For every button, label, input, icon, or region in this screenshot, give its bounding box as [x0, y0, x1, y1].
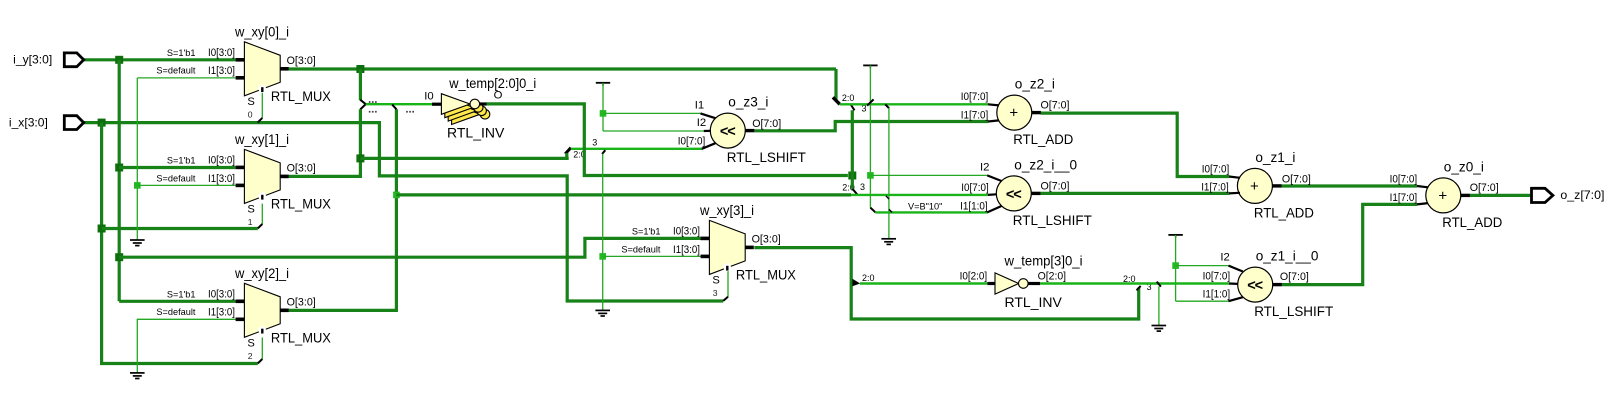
wire net o_z2 from adder output to o_z1_i I0 [1041, 113, 1230, 176]
svg-text:I1[3:0]: I1[3:0] [208, 307, 235, 319]
ripper tick w_xy[2] into inverter concat [392, 105, 396, 110]
junction net w_xy[2] branch to o_z2_i__0 shifter [393, 192, 400, 199]
wire net i_y to mux w_xy[3]_i I0 long segment [119, 238, 701, 257]
o_z2_i pin I1 stub [988, 120, 999, 121]
hop tick at I0 concat crossing [886, 196, 889, 199]
svg-text:S=1'b1: S=1'b1 [167, 156, 196, 166]
o_z1_i__0 pin I0 stub [1229, 282, 1238, 285]
ground symbol constant 0 for mux w_xy[2]_i I1 [130, 373, 145, 379]
w_xy[1]_i input pin I0 stub [236, 166, 245, 170]
wire net mux w_xy[3]_i select bit x[3] [727, 271, 729, 298]
svg-text:RTL_INV: RTL_INV [447, 125, 505, 141]
ground symbol constant 0 for mux I1 net [130, 240, 145, 246]
w_xy[1]_i select pin S stub [261, 195, 263, 200]
o_z2_i__0 pin I1 stub [987, 206, 1001, 212]
mux w_xy[0]_i (RTL_MUX) [244, 42, 280, 96]
svg-text:o_z1_i__0: o_z1_i__0 [1256, 249, 1319, 264]
wire net w_xy[0] right end down to slice [834, 69, 837, 100]
svg-text:I1[7:0]: I1[7:0] [961, 110, 989, 122]
svg-text:I0[7:0]: I0[7:0] [1390, 174, 1418, 186]
svg-text:w_xy[0]_i: w_xy[0]_i [234, 25, 289, 40]
w_xy[2]_i select pin S stub [261, 329, 263, 334]
svg-text:o_z2_i__0: o_z2_i__0 [1014, 157, 1077, 172]
wire net i_y horizontal from port to mux w_xy[0]_i I0 [84, 58, 236, 61]
bit-select tick mux w_xy[0]_i S onto i_x bus [258, 118, 263, 123]
svg-text:V=B"10": V=B"10" [908, 201, 942, 211]
input port i_x[3:0] [64, 116, 83, 130]
wire net inverter input concat (bright) [366, 103, 432, 105]
rtl_lshift o_z2_i__0 (RTL_LSHIFT) [996, 176, 1031, 211]
junction net i_y to mux w_xy[1]_i I0 [115, 164, 123, 172]
wire net shift value to o_z1_i__0 I1 [1176, 300, 1229, 302]
wire net mux w_xy[2]_i select bit x[2] [261, 338, 263, 360]
svg-text:S: S [247, 96, 254, 108]
svg-text:O[3:0]: O[3:0] [287, 162, 316, 174]
wire net i_x horizontal from port [84, 123, 724, 301]
svg-text:i_y[3:0]: i_y[3:0] [13, 53, 52, 67]
svg-text:w_xy[1]_i: w_xy[1]_i [234, 132, 289, 147]
wire net S=default branch to mux w_xy[1]_i I1 [137, 184, 235, 186]
wire net w_xy[0] vertical branch to INV concat [359, 69, 362, 100]
o_z2_i pin I0 stub [988, 104, 999, 105]
svg-text:I2: I2 [697, 117, 706, 129]
svg-text:3: 3 [860, 182, 865, 192]
svg-text:2: 2 [248, 351, 253, 361]
svg-text:O[7:0]: O[7:0] [1041, 99, 1070, 111]
wire net S=default of mux w_xy[2]_i I1 [137, 319, 235, 372]
hop tick at I1 value crossing [889, 209, 892, 212]
wire net w_temp[2:0] from inverter output [486, 104, 848, 176]
ground symbol constant 0 far right [1152, 326, 1167, 332]
w_xy[3]_i select pin S stub [726, 266, 728, 271]
bit-select tick mux w_xy[1]_i S [258, 224, 263, 228]
svg-text:w_temp[2:0]0_i: w_temp[2:0]0_i [448, 76, 536, 91]
net tag dots below [369, 111, 377, 113]
o_z0_i output pin O stub [1461, 194, 1470, 197]
o_z1_i pin I0 stub [1229, 177, 1240, 178]
w_xy[3]_i input pin I1 stub [701, 255, 710, 259]
wire net i_y to mux w_xy[2]_i I0 [119, 300, 235, 303]
svg-text:RTL_INV: RTL_INV [1005, 294, 1063, 310]
ground symbol constant 0 right [881, 239, 896, 245]
svg-text:I1[1:0]: I1[1:0] [960, 200, 988, 212]
svg-text:I1[3:0]: I1[3:0] [208, 65, 235, 77]
svg-text:O: O [494, 90, 503, 102]
o_z2_i output pin O stub [1032, 111, 1041, 114]
junction net w_xy[0] branch down [356, 65, 364, 73]
wire net o_z3 output to o_z2_i adder I1 [755, 122, 989, 131]
w_xy[1]_i input pin I1 stub [236, 184, 245, 188]
ripper tick w_temp into o_z2_i adder I0 concat [851, 105, 855, 111]
w_xy[2]_i input pin I0 stub [236, 299, 245, 303]
svg-text:0: 0 [248, 110, 253, 120]
svg-text:I0[3:0]: I0[3:0] [208, 47, 235, 59]
bus slice tick 2:0 of w_xy[0] into adder concat [833, 97, 840, 104]
svg-text:2:0: 2:0 [842, 93, 855, 103]
svg-text:<<: << [1247, 278, 1262, 294]
svg-text:<<: << [720, 124, 735, 140]
w_temp[3]0_i output stub [1028, 282, 1040, 285]
svg-text:I0[7:0]: I0[7:0] [678, 135, 706, 147]
svg-text:1: 1 [248, 217, 253, 227]
mux w_xy[1]_i (RTL_MUX) [244, 149, 280, 203]
w_xy[0]_i output pin O stub [280, 67, 289, 71]
wire net w_xy[1] from mux O up to concat [289, 109, 361, 176]
wire net w_xy[0] from mux w_xy[0]_i O [289, 67, 836, 70]
bus slice jog tick to 3-bit slice [565, 148, 571, 154]
svg-text:I1[3:0]: I1[3:0] [673, 244, 700, 256]
svg-text:RTL_LSHIFT: RTL_LSHIFT [1013, 212, 1092, 228]
svg-text:I0[2:0]: I0[2:0] [960, 271, 988, 283]
w_xy[2]_i output pin O stub [280, 308, 289, 312]
inverter w_temp[3]0_i (RTL_INV) [995, 273, 1019, 294]
svg-text:O[3:0]: O[3:0] [752, 233, 781, 245]
net tag dots [406, 111, 414, 113]
rtl_lshift o_z3_i (RTL_LSHIFT) [710, 113, 745, 148]
w_temp[3]0_i input pin I0 stub [988, 282, 996, 285]
wire net ground chain vertical mid schematic [602, 154, 604, 310]
svg-text:O[2:0]: O[2:0] [1038, 271, 1067, 283]
ripper tick w_xy[3] slice into o_z1_i__0 I0 concat [1137, 286, 1141, 290]
w_xy[2]_i input pin I1 stub [236, 317, 245, 321]
wire net w_xy[2] from mux O up to concat [289, 109, 397, 310]
wire net constant1 T-bar right [863, 64, 877, 66]
o_z1_i__0 pin I2 stub [1229, 266, 1243, 272]
wire net S=default constant to mux w_xy[0]_i I1 [137, 77, 235, 79]
bit-select tick mux w_xy[2]_i S [258, 359, 263, 363]
svg-text:RTL_ADD: RTL_ADD [1013, 131, 1073, 147]
svg-text:RTL_MUX: RTL_MUX [736, 267, 797, 283]
net tag dots above [369, 101, 377, 103]
svg-text:S: S [247, 338, 254, 350]
ripper tick ground-net tap from slice wire [602, 150, 605, 154]
wire net w_xy[2] to o_z2_i__0 I0 slice point [396, 193, 851, 196]
wire net w_xy[1] slice 2:0 to o_z3_i I0 (bright) [571, 148, 702, 150]
svg-text:+: + [1009, 105, 1018, 122]
w_xy[3]_i output pin O stub [745, 246, 754, 250]
svg-text:I1[3:0]: I1[3:0] [208, 173, 235, 185]
svg-text:I0[7:0]: I0[7:0] [1202, 164, 1230, 176]
input port i_y[3:0] [64, 53, 83, 67]
svg-text:I1[1:0]: I1[1:0] [1203, 289, 1231, 301]
ripper tick constant1 into adder I0 concat [867, 99, 874, 105]
svg-text:S: S [247, 204, 254, 216]
svg-text:o_z[7:0]: o_z[7:0] [1560, 188, 1604, 202]
ripper arrow w_xy[3] slice into inverter input [852, 279, 860, 287]
svg-text:o_z1_i: o_z1_i [1255, 150, 1295, 165]
svg-text:o_z0_i: o_z0_i [1444, 159, 1484, 174]
wire net inverter w_temp[3]0_i input (bright) [860, 282, 988, 284]
svg-text:RTL_ADD: RTL_ADD [1442, 214, 1502, 230]
w_xy[0]_i input pin I1 stub [236, 76, 245, 80]
svg-text:I1[7:0]: I1[7:0] [1201, 181, 1229, 193]
wire net shift-amount vertical [602, 83, 604, 131]
svg-text:w_xy[2]_i: w_xy[2]_i [234, 266, 289, 281]
svg-text:O[3:0]: O[3:0] [287, 296, 316, 308]
inverter w_temp[2:0]0_i (RTL_INV, stacked instances) [441, 94, 489, 125]
o_z0_i pin I1 stub [1417, 203, 1428, 204]
wire net S=default to mux w_xy[3]_i I1 [603, 255, 701, 257]
svg-text:I0[7:0]: I0[7:0] [961, 182, 989, 194]
svg-text:I1: I1 [695, 100, 704, 112]
junction on net i_y at trunk split [115, 56, 123, 64]
wire net o_z from adder o_z0_i output to port [1470, 194, 1532, 197]
junction ground-net branch to mux w_xy[3]_i I1 [599, 253, 606, 260]
wire net w_xy[3] from mux w_xy[3]_i O [754, 248, 1138, 319]
wire net constant1 vertical right [869, 65, 871, 207]
wire net i_x select branch to mux w_xy[1]_i S [102, 227, 258, 230]
svg-text:S=1'b1: S=1'b1 [167, 48, 196, 58]
svg-text:o_z3_i: o_z3_i [728, 95, 768, 110]
mux w_xy[3]_i (RTL_MUX) [709, 220, 745, 274]
svg-text:O[7:0]: O[7:0] [1041, 180, 1070, 192]
svg-text:w_xy[3]_i: w_xy[3]_i [699, 203, 754, 218]
ripper tick mux w_xy[1]_i O into inverter concat [360, 104, 365, 109]
o_z1_i pin I1 stub [1229, 192, 1240, 195]
ripper tick w_xy[0] into inverter input concat [360, 100, 366, 104]
svg-text:I0: I0 [424, 91, 433, 103]
svg-text:RTL_LSHIFT: RTL_LSHIFT [1254, 303, 1333, 319]
junction shift-amount to o_z3_i I1 [600, 110, 607, 117]
ripper tick w_temp join into o_z2_i__0 I0 concat [852, 189, 857, 195]
output port o_z[7:0] [1532, 188, 1553, 202]
junction net i_x select branch to mux w_xy[1]_i [98, 225, 106, 233]
o_z3_i pin I0 stub [702, 143, 716, 149]
o_z3_i pin I2 stub [704, 130, 711, 132]
svg-text:S=default: S=default [156, 173, 196, 183]
wire net i_y to mux w_xy[1]_i I0 [119, 166, 235, 169]
w_xy[0]_i select pin S stub [261, 87, 263, 92]
ground symbol constant 0 mid schematic [595, 310, 610, 316]
o_z2_i__0 pin I0 stub [988, 193, 997, 196]
wire net to o_z3_i I2 [603, 130, 704, 132]
rtl_add o_z2_i (RTL_ADD) [997, 95, 1032, 130]
svg-text:+: + [1250, 178, 1259, 195]
ripper tick constant1 into shift value V=B"10" [870, 208, 875, 213]
ripper tick ground into o_z1_i__0 I0 concat [1157, 282, 1161, 287]
wire net shift value B"10" to o_z2_i__0 I1 (bright) [875, 211, 987, 213]
wire net o_z2_i adder I0 concat (bright) [840, 103, 989, 105]
o_z1_i__0 pin I1 stub [1229, 297, 1243, 301]
mux w_xy[2]_i (RTL_MUX) [244, 283, 280, 337]
rtl_lshift o_z1_i__0 (RTL_LSHIFT) [1238, 267, 1273, 302]
svg-text:O[7:0]: O[7:0] [1282, 173, 1311, 185]
svg-text:I0[3:0]: I0[3:0] [208, 288, 235, 300]
svg-text:I2: I2 [980, 162, 989, 174]
svg-text:RTL_MUX: RTL_MUX [271, 330, 332, 346]
svg-text:<<: << [1006, 187, 1021, 203]
wire net mux w_xy[1]_i select bit x[1] [261, 204, 263, 225]
w_xy[3]_i input pin I0 stub [701, 237, 710, 241]
wire net i_x vertical trunk for selects [102, 123, 258, 364]
svg-text:I0[3:0]: I0[3:0] [673, 225, 700, 237]
junction constant1 branch to o_z2_i__0 I2 [867, 172, 874, 179]
svg-text:I0[7:0]: I0[7:0] [1203, 271, 1231, 283]
wire net w_temp vertical to concat rippers [851, 172, 854, 189]
svg-text:O[3:0]: O[3:0] [287, 55, 316, 67]
wire net ground vertical far right [1158, 286, 1160, 325]
svg-text:O[7:0]: O[7:0] [752, 118, 781, 130]
svg-text:RTL_ADD: RTL_ADD [1254, 204, 1314, 220]
wire net o_z1_i__0 I0 concat from inverter output (bright) [1040, 282, 1229, 284]
svg-text:+: + [1438, 187, 1447, 204]
junction net w_xy[1] branch to o_z3 shifter [356, 154, 364, 162]
junction net i_y to mux w_xy[3]_i I0 [115, 253, 123, 261]
svg-text:O[7:0]: O[7:0] [1280, 271, 1309, 283]
wire net o_z2_i__0 shifter output to o_z1_i I1 [1040, 192, 1229, 195]
wire net w_xy[1] to o_z3_i I0 slice point [360, 157, 568, 160]
wire net mux w_xy[0]_i select bit x[0] [261, 91, 263, 118]
w_xy[1]_i output pin O stub [280, 175, 289, 179]
svg-text:I0[3:0]: I0[3:0] [208, 154, 235, 166]
o_z2_i__0 output pin O stub [1031, 192, 1040, 195]
rtl_add o_z0_i (RTL_ADD) [1426, 178, 1461, 213]
svg-text:S=1'b1: S=1'b1 [167, 289, 196, 299]
svg-text:S=default: S=default [156, 307, 196, 317]
svg-text:RTL_LSHIFT: RTL_LSHIFT [727, 149, 806, 165]
svg-text:S=1'b1: S=1'b1 [632, 227, 661, 237]
svg-text:I2: I2 [1220, 252, 1229, 264]
wire net ground right vertical [888, 108, 890, 239]
svg-text:2:0: 2:0 [862, 273, 875, 283]
svg-text:3: 3 [592, 137, 597, 147]
wire net o_z1 from adder output to o_z0_i I0 [1281, 184, 1417, 187]
wire net o_z1_i__0 output to o_z0_i I1 [1282, 204, 1418, 284]
w_temp[2:0]0_i output stub [480, 102, 487, 105]
o_z1_i output pin O stub [1272, 184, 1281, 187]
svg-text:I0[7:0]: I0[7:0] [961, 91, 989, 103]
svg-text:w_temp[3]0_i: w_temp[3]0_i [1004, 253, 1083, 268]
wire net o_z2_i__0 I0 concat (bright) [851, 194, 988, 196]
junction constant1 branch to o_z1_i__0 I2 [1172, 262, 1179, 269]
ripper tick ground into adder I0 concat [885, 104, 889, 108]
svg-text:S=default: S=default [621, 244, 661, 254]
svg-text:RTL_MUX: RTL_MUX [271, 88, 332, 104]
o_z2_i__0 pin I2 stub [987, 175, 1001, 181]
w_xy[0]_i input pin I0 stub [236, 58, 245, 62]
svg-text:S: S [712, 275, 719, 287]
o_z3_i output pin O stub [745, 129, 754, 132]
wire net constant1 T-bar for o_z3 shift amount [596, 82, 610, 84]
o_z1_i__0 output pin O stub [1273, 283, 1282, 286]
svg-text:O[7:0]: O[7:0] [1470, 182, 1499, 194]
svg-text:i_x[3:0]: i_x[3:0] [9, 115, 48, 129]
o_z3_i pin I1 stub [701, 113, 716, 118]
rtl_add o_z1_i (RTL_ADD) [1237, 168, 1272, 203]
wire net to o_z3_i I1 [603, 112, 701, 114]
junction on net i_x at trunk split [98, 119, 106, 127]
junction net S=default branch to mux w_xy[1]_i I1 [134, 182, 141, 189]
svg-text:3: 3 [713, 288, 718, 298]
wire net to o_z1_i__0 I2 [1176, 265, 1229, 267]
w_temp[2:0]0_i input pin I0 stub [432, 103, 441, 106]
bit-select tick mux w_xy[3]_i S [723, 297, 728, 301]
svg-text:o_z2_i: o_z2_i [1015, 77, 1055, 92]
wire net constant1 vertical far right [1175, 235, 1177, 301]
svg-text:S=default: S=default [156, 66, 196, 76]
svg-text:I1[7:0]: I1[7:0] [1390, 192, 1418, 204]
svg-text:RTL_MUX: RTL_MUX [271, 196, 332, 212]
wire net S=default vertical to ground [136, 78, 138, 240]
wire net to o_z2_i__0 I2 [870, 174, 987, 176]
junction net w_temp at adder concat branch [848, 172, 856, 180]
o_z0_i pin I0 stub [1417, 186, 1428, 187]
wire net constant1 T-bar far right [1168, 234, 1182, 236]
wire net i_y vertical trunk [118, 60, 121, 301]
